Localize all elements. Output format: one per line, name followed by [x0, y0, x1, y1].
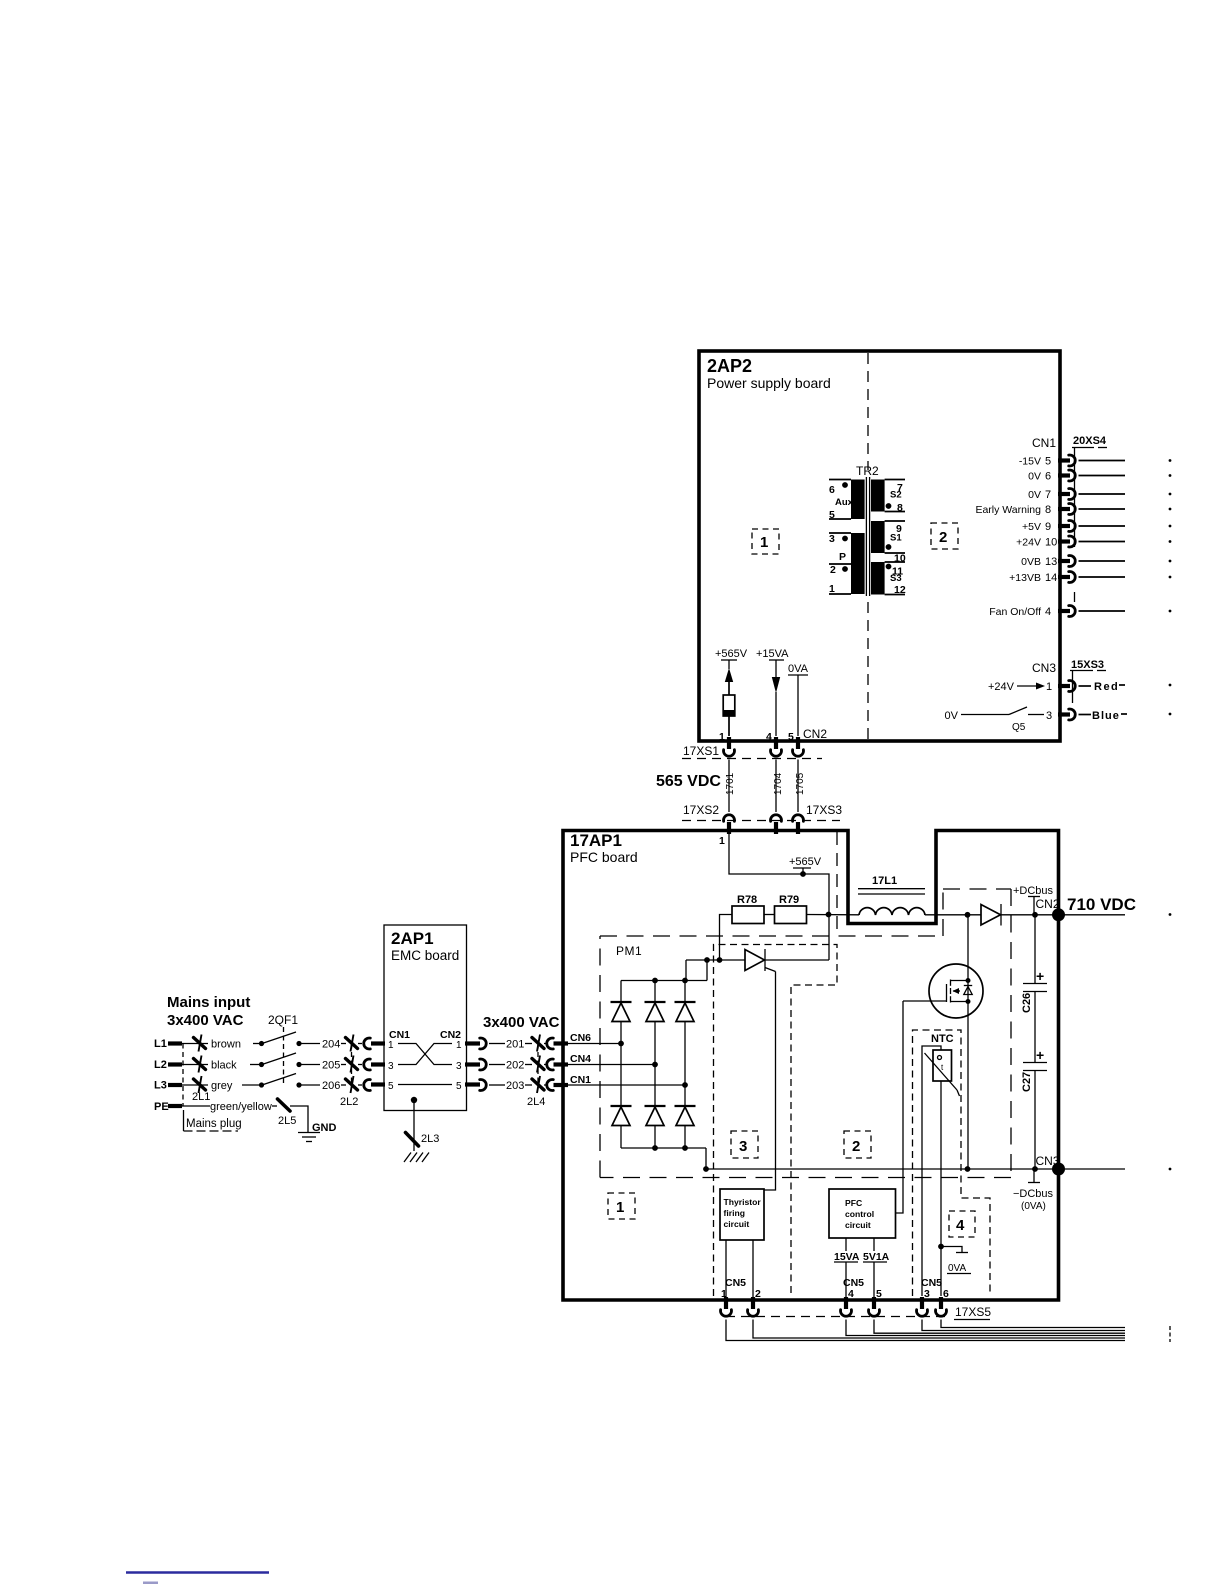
- pin 17XS2/3 at x=776: [771, 815, 782, 834]
- pin 17XS5-2 with cable: [748, 1297, 1126, 1338]
- junction EMC ground tap: [411, 1097, 417, 1103]
- pin CN1-8 Early Warning: [975, 504, 1171, 517]
- pin 17XS2/3 at x=798: [793, 815, 804, 834]
- pin stub EMC right y=1084: [465, 1082, 480, 1086]
- svg-text:circuit: circuit: [845, 1220, 871, 1230]
- svg-text:S1: S1: [890, 533, 902, 544]
- fuse (2AP2 +565V): [723, 695, 735, 716]
- svg-text:0VB: 0VB: [1021, 556, 1041, 568]
- diode D boost: [981, 904, 1001, 926]
- junction 0VA tap: [938, 1244, 944, 1250]
- svg-text:P: P: [839, 551, 846, 563]
- net 15VA label: [834, 1251, 860, 1263]
- svg-text:17L1: 17L1: [872, 875, 897, 887]
- wire firing circuit to CN5-1: [725, 1240, 727, 1297]
- block PFC control circuit: [829, 1189, 896, 1238]
- cable marker 2L4 L1: [532, 1035, 544, 1052]
- switch Q5: [945, 707, 1044, 733]
- section box 2 (2AP2): [931, 523, 958, 549]
- svg-text:1705: 1705: [795, 772, 806, 795]
- connector socket into PFC L1: [547, 1038, 554, 1049]
- capacitor C26: [1021, 915, 1047, 1063]
- svg-text:+DCbus: +DCbus: [1013, 885, 1054, 897]
- svg-text:4: 4: [956, 1217, 965, 1234]
- svg-text:2: 2: [830, 564, 836, 576]
- svg-text:0V: 0V: [945, 710, 959, 722]
- pin 17XS1 at x=798: [793, 737, 804, 812]
- junction R79 output: [826, 912, 832, 918]
- svg-text:1: 1: [719, 835, 725, 847]
- svg-text:3x400 VAC: 3x400 VAC: [167, 1012, 244, 1029]
- section box 1 (2AP2): [752, 529, 779, 554]
- transformer TR2 winding P (left lower): [851, 533, 865, 594]
- svg-text:0VA: 0VA: [948, 1263, 966, 1274]
- svg-text:17XS2: 17XS2: [683, 803, 719, 817]
- section box 4 (PFC): [949, 1211, 975, 1237]
- svg-text:17XS1: 17XS1: [683, 744, 719, 758]
- wire 710 VDC out: [1058, 914, 1125, 916]
- transformer TR2 winding S1 (right middle): [871, 521, 885, 553]
- svg-text:12: 12: [894, 584, 906, 596]
- svg-text:brown: brown: [211, 1039, 241, 1051]
- svg-text:20XS4: 20XS4: [1073, 435, 1107, 447]
- section box 1 (PFC): [608, 1193, 635, 1219]
- cable marker 2L4 L3: [532, 1076, 544, 1093]
- wire R79 to inductor: [807, 914, 860, 916]
- svg-text:204: 204: [322, 1039, 340, 1051]
- transformer TR2 core: [865, 477, 867, 596]
- svg-text:203: 203: [506, 1080, 524, 1092]
- node 710 VDC junction: [1052, 908, 1065, 921]
- junction CN4 column: [652, 1062, 658, 1068]
- svg-text:+13VB: +13VB: [1009, 572, 1041, 584]
- svg-text:+565V: +565V: [715, 648, 748, 660]
- wire EMC crossover 3-1: [398, 1044, 452, 1065]
- svg-text:5: 5: [876, 1288, 882, 1300]
- wire CN6 input: [565, 1043, 621, 1045]
- svg-text:Aux: Aux: [835, 497, 854, 508]
- svg-text:S2: S2: [890, 490, 902, 501]
- shield box NTC thin dashed: [913, 1030, 991, 1296]
- breaker 2QF1 pole L1: [259, 1032, 302, 1046]
- breaker 2QF1 pole L3: [259, 1074, 302, 1088]
- svg-text:+565V: +565V: [789, 856, 822, 868]
- pin CN2 marker: [1028, 897, 1040, 914]
- cable marker 2L4 L2: [532, 1056, 544, 1073]
- wire EMC out L2: [489, 1064, 505, 1066]
- svg-text:Early Warning: Early Warning: [975, 504, 1041, 516]
- svg-text:4: 4: [848, 1288, 854, 1300]
- junction +565V: [800, 871, 806, 877]
- connector socket into EMC CN1 L1: [364, 1038, 371, 1049]
- net +565V (2AP2): [715, 648, 748, 669]
- ground earth GND: [298, 1122, 337, 1142]
- svg-text:2QF1: 2QF1: [268, 1013, 298, 1027]
- cable marker 2L2 L3: [346, 1076, 358, 1093]
- svg-text:R78: R78: [737, 894, 757, 906]
- svg-text:2: 2: [852, 1138, 860, 1155]
- svg-text:firing: firing: [724, 1208, 745, 1218]
- svg-text:1: 1: [719, 731, 725, 743]
- section divider dashed (PFC top): [836, 832, 838, 936]
- svg-text:14: 14: [1045, 572, 1057, 584]
- cable marker 2L1 L3: [194, 1076, 206, 1093]
- cable marker 2L2 L2: [346, 1056, 358, 1073]
- svg-text:EMC board: EMC board: [391, 948, 459, 963]
- wire bridge top bus: [621, 960, 707, 983]
- pin stub into PFC L1: [554, 1041, 569, 1045]
- connector 17XS5 label: [954, 1305, 991, 1320]
- svg-text:1: 1: [1046, 681, 1052, 693]
- svg-text:2: 2: [939, 529, 947, 546]
- svg-text:-15V: -15V: [1019, 456, 1041, 468]
- svg-text:R79: R79: [779, 894, 799, 906]
- wire EMC straight 5-5: [398, 1084, 452, 1086]
- net 0VA reference (PFC): [941, 1247, 971, 1275]
- wire EMC out L1: [489, 1043, 505, 1045]
- svg-text:Red: Red: [1094, 681, 1119, 693]
- resistor R79: [775, 894, 807, 924]
- svg-text:black: black: [211, 1060, 237, 1072]
- wire 5V1A to CN5-5: [873, 1262, 875, 1297]
- pin CN3-1 Red: [1046, 681, 1171, 694]
- diode bridge upper 1: [611, 981, 632, 1107]
- section box 3 (PFC): [731, 1131, 758, 1158]
- arrow down +15VA: [772, 677, 780, 693]
- svg-text:Mains plug: Mains plug: [186, 1118, 242, 1130]
- svg-text:PFC board: PFC board: [570, 849, 638, 865]
- diode bridge lower 2: [645, 1106, 666, 1148]
- svg-text:5: 5: [456, 1081, 462, 1092]
- svg-text:Thyristor: Thyristor: [724, 1197, 762, 1207]
- svg-text:−DCbus: −DCbus: [1013, 1188, 1054, 1200]
- svg-text:2L3: 2L3: [421, 1133, 439, 1145]
- svg-text:0V: 0V: [1028, 471, 1041, 483]
- svg-text:CN5: CN5: [725, 1277, 746, 1289]
- wire L2 to EMC: [299, 1064, 320, 1066]
- svg-text:Power supply board: Power supply board: [707, 375, 831, 391]
- svg-text:202: 202: [506, 1060, 524, 1072]
- diode bridge upper 3: [675, 981, 696, 1107]
- svg-text:8: 8: [897, 502, 903, 514]
- svg-text:2: 2: [755, 1288, 761, 1300]
- connector 17XS5 dashed cable line: [726, 1316, 950, 1318]
- svg-text:1704: 1704: [773, 772, 784, 795]
- block Thyristor firing circuit: [720, 1189, 764, 1240]
- wire EMC ground: [413, 1100, 415, 1151]
- wire CN2-1 upper: [728, 682, 730, 695]
- net +565V (PFC): [789, 856, 822, 874]
- net 5V1A label: [863, 1251, 890, 1263]
- svg-text:1701: 1701: [725, 772, 736, 795]
- svg-text:5: 5: [1045, 456, 1051, 468]
- svg-text:2L2: 2L2: [340, 1096, 358, 1108]
- pin stub EMC right y=1064: [465, 1062, 480, 1066]
- cable marker 2L2 L1: [346, 1035, 358, 1052]
- wire 15VA to CN5-4: [845, 1262, 847, 1297]
- svg-text:6: 6: [943, 1288, 949, 1300]
- pin 17XS1 at x=729: [724, 737, 735, 812]
- connector socket into EMC CN1 L3: [364, 1080, 371, 1091]
- wire R78-R79: [764, 914, 775, 916]
- thyristor V1: [745, 949, 776, 972]
- wire 15VA from control: [845, 1238, 847, 1251]
- transformer TR2 winding S3 (right lower): [871, 562, 885, 595]
- svg-text:1: 1: [760, 534, 768, 551]
- pin CN1-14 +13VB: [1009, 572, 1171, 585]
- wire MOSFET gate: [903, 1000, 947, 1002]
- wire inductor to diode: [925, 914, 981, 916]
- svg-text:+: +: [1036, 1047, 1044, 1063]
- transformer TR2 winding Aux (left upper): [851, 480, 865, 520]
- wire thyristor gate: [764, 972, 776, 1191]
- transformer TR2 winding S2 (right upper): [871, 480, 885, 512]
- breaker 2QF1 pole L2: [259, 1053, 302, 1067]
- svg-text:17AP1: 17AP1: [570, 831, 622, 850]
- svg-text:0VA: 0VA: [788, 663, 809, 675]
- svg-text:4: 4: [766, 731, 772, 743]
- svg-text:PFC: PFC: [845, 1198, 862, 1208]
- pin CN1-4 Fan On/Off: [989, 606, 1171, 619]
- svg-text:2AP2: 2AP2: [707, 356, 752, 376]
- breaker 2QF1 linkage dashed: [283, 1027, 285, 1086]
- pin CN1-9 +5V: [1022, 521, 1171, 534]
- svg-text:CN3: CN3: [1036, 1154, 1060, 1168]
- pin 17XS5-6 with cable: [936, 1297, 1126, 1328]
- svg-text:1: 1: [388, 1040, 394, 1051]
- connector socket into PFC L3: [547, 1080, 554, 1091]
- svg-text:L3: L3: [154, 1080, 167, 1092]
- wire -DCbus rail: [703, 1166, 1171, 1172]
- wire thyristor cathode: [765, 959, 829, 961]
- pin 17XS5-4 with cable: [841, 1297, 1126, 1336]
- transistor Q MOSFET with body diode: [929, 915, 983, 1018]
- svg-text:3: 3: [829, 533, 835, 545]
- wire CN4 input: [565, 1064, 655, 1066]
- inductor 17L1: [858, 875, 925, 915]
- section box 2 (PFC): [844, 1131, 871, 1158]
- svg-text:3: 3: [1046, 710, 1052, 722]
- svg-text:C27: C27: [1021, 1072, 1033, 1092]
- pin 17XS1 at x=776: [771, 737, 782, 812]
- svg-text:1: 1: [456, 1040, 462, 1051]
- svg-text:+24V: +24V: [1016, 537, 1041, 549]
- svg-text:710 VDC: 710 VDC: [1067, 895, 1136, 914]
- svg-text:13: 13: [1045, 556, 1057, 568]
- svg-text:6: 6: [1045, 471, 1051, 483]
- junction CN6 column: [618, 1041, 624, 1047]
- node CN3 junction (PFC): [1052, 1163, 1065, 1176]
- svg-text:circuit: circuit: [724, 1219, 750, 1229]
- connector 15XS3 bracket: [1070, 670, 1093, 672]
- svg-text:CN2: CN2: [803, 727, 827, 741]
- footer blue rule: [126, 1571, 269, 1573]
- svg-text:565 VDC: 565 VDC: [656, 773, 721, 790]
- wire MOSFET source to -DCbus: [967, 1002, 969, 1170]
- pin 17XS5-5 with cable: [869, 1297, 1126, 1333]
- connector 17XS1 dashed cable line: [682, 758, 822, 760]
- svg-text:TR2: TR2: [856, 464, 879, 478]
- arrow up +565V: [725, 668, 733, 682]
- thermistor NTC: [925, 1033, 960, 1096]
- svg-text:+5V: +5V: [1022, 521, 1041, 533]
- svg-text:Q5: Q5: [1012, 722, 1026, 733]
- svg-text:+15VA: +15VA: [756, 648, 789, 660]
- wire L1 to EMC: [299, 1043, 320, 1045]
- wire firing circuit to CN5-2: [752, 1240, 754, 1297]
- wire L3 to EMC: [299, 1084, 320, 1086]
- svg-text:15XS3: 15XS3: [1071, 659, 1104, 671]
- svg-text:9: 9: [1045, 521, 1051, 533]
- svg-text:2AP1: 2AP1: [391, 929, 434, 948]
- wire CN2-1 to border: [728, 716, 730, 736]
- svg-text:GND: GND: [312, 1122, 337, 1134]
- capacitor C27: [1021, 1047, 1047, 1169]
- svg-text:3: 3: [924, 1288, 930, 1300]
- pin CN3 marker (PFC): [1028, 1169, 1040, 1183]
- connector socket EMC CN2 L1: [480, 1038, 487, 1049]
- svg-text:2L5: 2L5: [278, 1115, 296, 1127]
- connector 20XS4 bracket: [1072, 447, 1094, 449]
- wire NTC bottom to CN5-6: [940, 1081, 942, 1296]
- pin stub into PFC L2: [554, 1062, 569, 1066]
- svg-text:10: 10: [1045, 537, 1057, 549]
- label Mains plug: [184, 1110, 242, 1131]
- pin stub into PFC L3: [554, 1083, 569, 1087]
- pin 17XS5-3 with cable: [917, 1297, 1126, 1331]
- svg-text:PM1: PM1: [616, 944, 642, 958]
- wire 5V1A from control: [873, 1238, 875, 1251]
- wire CN2-5 to border: [797, 675, 799, 736]
- cable marker 2L1 L2: [194, 1056, 206, 1073]
- svg-text:C26: C26: [1021, 993, 1033, 1013]
- connector 17XS2/17XS3 dashed cable line: [682, 820, 840, 822]
- junction MOSFET drain tap: [965, 912, 971, 918]
- pin stub EMC left y=1084: [371, 1082, 385, 1086]
- svg-text:Fan On/Off: Fan On/Off: [989, 606, 1041, 618]
- svg-text:8: 8: [1045, 504, 1051, 516]
- wire EMC out L3: [489, 1084, 505, 1086]
- svg-text:control: control: [845, 1209, 874, 1219]
- pin 17XS2/3 at x=729: [724, 815, 735, 834]
- cable marker link 2L2 dashed: [351, 1044, 353, 1086]
- board 2AP2 section divider dashed: [867, 353, 869, 739]
- svg-text:0V: 0V: [1028, 489, 1041, 501]
- wire CN2-4 to border: [775, 692, 777, 736]
- svg-text:206: 206: [322, 1080, 340, 1092]
- svg-text:S3: S3: [890, 573, 902, 584]
- cable marker link 2L4 dashed: [537, 1044, 539, 1086]
- svg-text:L2: L2: [154, 1059, 167, 1071]
- cable marker 2L3: [406, 1133, 440, 1147]
- wire bridge output to thyristor: [686, 957, 745, 963]
- earth line PE: [154, 1101, 210, 1113]
- wire PFC control to MOSFET gate: [896, 1001, 904, 1213]
- diode bridge lower 1: [611, 1106, 632, 1148]
- cable marker 2L5: [278, 1099, 297, 1127]
- svg-text:1: 1: [616, 1199, 624, 1216]
- svg-text:205: 205: [322, 1060, 340, 1072]
- svg-text:CN4: CN4: [570, 1053, 591, 1065]
- svg-text:5: 5: [829, 509, 835, 521]
- cable bundle 2L1 dashed link: [182, 1044, 184, 1107]
- svg-text:CN1: CN1: [570, 1074, 591, 1086]
- pin CN3-3 Blue: [1046, 709, 1171, 722]
- svg-text:201: 201: [506, 1039, 524, 1051]
- pin CN1-6 0V: [1028, 470, 1171, 483]
- net +15VA (2AP2): [756, 648, 789, 677]
- svg-text:(0VA): (0VA): [1021, 1201, 1046, 1212]
- svg-text:t: t: [941, 1063, 944, 1072]
- svg-text:5V1A: 5V1A: [863, 1251, 890, 1263]
- cable marker 2L1 L1: [194, 1035, 206, 1052]
- connector socket EMC CN2 L3: [480, 1080, 487, 1091]
- pin stub EMC left y=1064: [371, 1062, 385, 1066]
- pin CN1-5 -15V: [1019, 455, 1172, 468]
- svg-text:CN6: CN6: [570, 1032, 591, 1044]
- diode bridge lower 3: [675, 1106, 696, 1148]
- connector socket into EMC CN1 L2: [364, 1059, 371, 1070]
- svg-text:Mains input: Mains input: [167, 994, 250, 1011]
- svg-text:green/yellow: green/yellow: [210, 1101, 272, 1113]
- net +24V arrow to CN3-1: [988, 681, 1045, 693]
- phase line L2: [154, 1059, 208, 1071]
- pin CN1-10 +24V: [1016, 536, 1171, 549]
- svg-text:+: +: [1036, 968, 1044, 984]
- svg-text:6: 6: [829, 484, 835, 496]
- pin 17XS5-1 with cable: [721, 1297, 1126, 1341]
- wire NTC top to CN5-3: [922, 1046, 941, 1296]
- board 2AP1 outline: [384, 925, 467, 1111]
- svg-text:grey: grey: [211, 1080, 233, 1092]
- wire diode to CN2: [1001, 914, 1058, 916]
- wire L3 to breaker: [242, 1084, 261, 1086]
- svg-text:3x400 VAC: 3x400 VAC: [483, 1014, 560, 1031]
- board 17AP1 outline with notch: [563, 831, 1059, 1301]
- svg-text:3: 3: [456, 1061, 462, 1072]
- svg-text:+24V: +24V: [988, 681, 1015, 693]
- svg-text:5: 5: [788, 731, 794, 743]
- wire L1 to breaker: [253, 1043, 261, 1045]
- phase line L1: [154, 1038, 208, 1050]
- svg-text:5: 5: [388, 1081, 394, 1092]
- svg-text:3: 3: [388, 1061, 394, 1072]
- board 2AP2 outline: [699, 351, 1060, 741]
- phase line L3: [154, 1080, 208, 1092]
- wire L2 to breaker: [250, 1064, 261, 1066]
- svg-text:Blue: Blue: [1092, 710, 1120, 722]
- cable continuation marks bottom right: [1169, 1326, 1171, 1342]
- pin stub EMC left y=1044: [371, 1041, 385, 1045]
- svg-text:4: 4: [1045, 606, 1051, 618]
- svg-text:17XS5: 17XS5: [955, 1305, 991, 1319]
- pin CN1-7 0V: [1028, 489, 1171, 502]
- svg-text:3: 3: [739, 1138, 747, 1155]
- svg-text:2L4: 2L4: [527, 1096, 545, 1108]
- wire EMC crossover 1-3: [398, 1044, 452, 1065]
- svg-text:17XS3: 17XS3: [806, 803, 842, 817]
- resistor R78: [732, 894, 764, 924]
- svg-text:CN1: CN1: [1032, 436, 1056, 450]
- diode bridge upper 2: [645, 981, 666, 1107]
- wire 1701 +565V routing inside PFC: [729, 834, 829, 915]
- svg-text:2L1: 2L1: [192, 1091, 210, 1103]
- junction C26 tap: [1032, 912, 1038, 918]
- svg-text:CN3: CN3: [1032, 661, 1056, 675]
- junction CN1 column: [682, 1082, 688, 1088]
- net 0VA (2AP2): [788, 663, 809, 675]
- shield box section 3 thin dashed: [714, 945, 838, 1297]
